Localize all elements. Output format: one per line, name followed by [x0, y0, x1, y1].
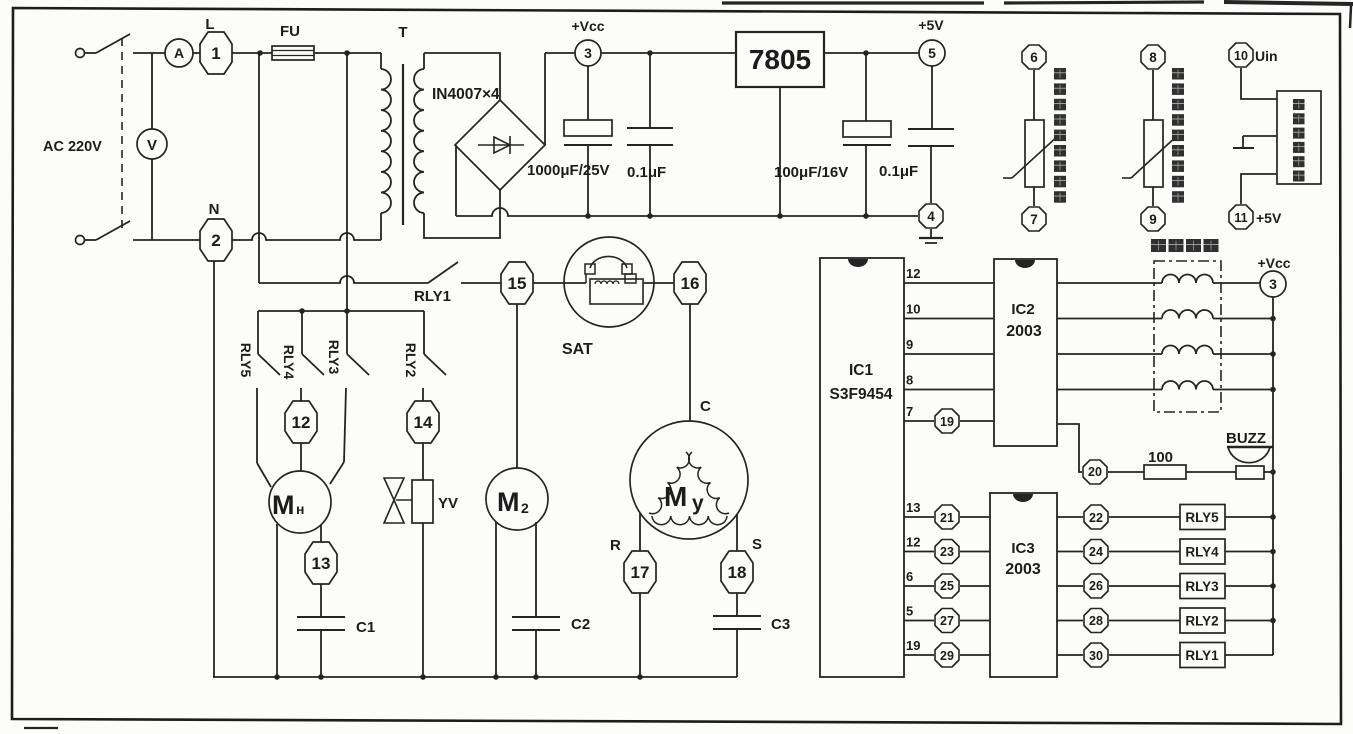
svg-text:25: 25 — [940, 579, 954, 593]
relay coil RLY1 — [1180, 643, 1225, 668]
junction — [344, 50, 350, 56]
wire — [639, 593, 641, 677]
svg-text:16: 16 — [681, 274, 700, 293]
wire — [736, 593, 738, 616]
capacitor C3 — [713, 615, 761, 617]
svg-text:C: C — [700, 398, 711, 415]
svg-text:RLY5: RLY5 — [238, 343, 254, 378]
wire RLY3 diagonal into motor — [330, 462, 344, 484]
svg-text:IN4007×4: IN4007×4 — [432, 86, 500, 103]
relay coil RLY3 — [1180, 574, 1225, 599]
wire IC1 pin 8 — [904, 389, 994, 391]
svg-text:+5V: +5V — [1256, 210, 1282, 226]
wire — [1264, 471, 1273, 473]
svg-text:13: 13 — [906, 500, 920, 515]
wire bridge left corner down — [455, 145, 457, 216]
thermistor RT2 body — [1144, 120, 1163, 187]
svg-text:M: M — [272, 490, 295, 520]
svg-text:4: 4 — [927, 209, 935, 224]
svg-text:2: 2 — [521, 500, 529, 516]
wire IC3 out row 1 — [1057, 516, 1083, 518]
wire +Vcc rail right — [1272, 297, 1274, 655]
svg-text:V: V — [147, 137, 157, 154]
junction — [1270, 351, 1276, 357]
capacitor 0.1uF a — [649, 53, 651, 128]
svg-text:21: 21 — [940, 511, 954, 525]
switch RLY4 — [301, 311, 303, 354]
svg-text:100: 100 — [1148, 449, 1173, 466]
switch S1a blade — [96, 34, 130, 53]
node 1 — [200, 32, 232, 74]
svg-text:23: 23 — [940, 545, 954, 559]
stepper coil 3 — [1162, 346, 1213, 355]
wire — [960, 654, 990, 656]
wire — [133, 239, 200, 241]
svg-text:2003: 2003 — [1006, 323, 1042, 340]
op-amp IC2 2003 box — [994, 259, 1057, 446]
junction — [299, 308, 305, 314]
svg-text:BUZZ: BUZZ — [1226, 430, 1266, 447]
svg-text:3: 3 — [584, 45, 592, 61]
wire RLY5 diagonal into motor — [257, 463, 271, 487]
relay coil RLY5 — [1180, 505, 1225, 530]
wire — [1108, 471, 1144, 473]
node 27 — [935, 609, 959, 633]
capacitor 0.1uF b — [931, 66, 933, 129]
stepper coil 2 — [1162, 310, 1213, 319]
svg-text:N: N — [209, 201, 220, 218]
wire vertical to RLY1 line — [258, 53, 260, 283]
node 23 — [935, 540, 959, 564]
wire motor left down — [276, 524, 278, 677]
node 13 — [305, 542, 337, 584]
svg-text:IC2: IC2 — [1011, 301, 1034, 318]
bridge diode symbol — [478, 144, 524, 146]
node 20 — [1083, 460, 1107, 484]
wire — [461, 282, 501, 284]
wire — [1109, 620, 1180, 622]
svg-text:YV: YV — [438, 495, 458, 512]
junction — [863, 50, 869, 56]
node 5 — [919, 40, 945, 66]
wire — [1152, 187, 1154, 206]
svg-text:RLY3: RLY3 — [1185, 579, 1219, 594]
IR gnd symbol — [1243, 135, 1277, 137]
op-amp IC1 S3F9454 box — [820, 258, 904, 677]
capacitor C1 — [297, 616, 345, 618]
svg-text:AC 220V: AC 220V — [43, 139, 102, 155]
svg-text:C2: C2 — [571, 616, 590, 633]
wire IC1 pin 10 — [904, 318, 994, 320]
wire IC1 pin 12 — [904, 551, 934, 553]
wire — [1109, 585, 1180, 587]
wire +Vcc rail — [545, 52, 736, 54]
fuse FU — [272, 46, 314, 60]
node 4 — [919, 204, 943, 228]
svg-text:RLY2: RLY2 — [403, 343, 419, 378]
svg-text:L: L — [205, 16, 214, 33]
wire bridge + output up — [544, 53, 546, 145]
wire — [232, 52, 272, 54]
svg-text:5: 5 — [928, 45, 936, 61]
node 7 — [1022, 207, 1046, 231]
wire — [960, 516, 990, 518]
svg-text:10: 10 — [1234, 49, 1248, 63]
My winding bottom — [652, 516, 727, 525]
wire IC3 out row 5 — [1057, 654, 1083, 656]
label stepper motor (chinese) — [1151, 239, 1166, 252]
svg-text:29: 29 — [940, 649, 954, 663]
node 21 — [935, 505, 959, 529]
switch S1b blade — [96, 221, 130, 240]
wire — [1213, 282, 1260, 284]
junction dots on ground rail — [585, 213, 591, 219]
svg-text:12: 12 — [292, 413, 311, 432]
svg-text:FU: FU — [280, 23, 300, 40]
wire IC2 out row 4 — [1057, 389, 1162, 391]
wire motor right down — [535, 522, 537, 617]
junction — [647, 50, 653, 56]
junction — [257, 50, 263, 56]
wire — [1186, 471, 1236, 473]
wire — [1213, 318, 1273, 320]
node 9 — [1141, 207, 1165, 231]
svg-text:IC3: IC3 — [1011, 540, 1034, 557]
ground rail with hop — [456, 208, 918, 216]
wire R lead — [639, 513, 641, 551]
wire IC1 pin 7 — [904, 420, 934, 422]
wire 7805 output — [824, 52, 919, 54]
motor M2 — [486, 468, 548, 530]
wire node2 down — [213, 261, 215, 677]
wire — [1109, 654, 1180, 656]
node 22 — [1084, 505, 1108, 529]
node 14 — [407, 401, 439, 443]
wire node15 down — [516, 304, 518, 468]
wire IC2 to node 20 — [1057, 424, 1082, 472]
svg-text:7: 7 — [1030, 212, 1038, 227]
junction — [1270, 316, 1276, 322]
scan artifact top edge marks — [722, 1, 984, 4]
wire IC1 pin 9 — [904, 353, 994, 355]
junction — [1270, 514, 1276, 520]
wire — [643, 282, 675, 284]
svg-text:5: 5 — [906, 604, 913, 619]
wire S lead — [736, 514, 738, 551]
junction — [1270, 469, 1276, 475]
svg-text:M: M — [664, 481, 687, 512]
valve YV solenoid body — [412, 480, 433, 523]
ammeter A — [165, 39, 193, 67]
wire IC1 pin 13 — [904, 516, 934, 518]
ground symbol — [930, 229, 932, 238]
IC3 notch — [1013, 494, 1033, 502]
valve YV bowtie — [384, 478, 404, 500]
node 18 — [721, 551, 753, 593]
junction — [420, 674, 426, 680]
svg-text:IC1: IC1 — [849, 362, 874, 379]
wire IC1 pin 5 — [904, 620, 934, 622]
thermistor RT2 arrow — [1131, 135, 1178, 178]
node 29 — [935, 643, 959, 667]
svg-text:Uin: Uin — [1255, 48, 1278, 64]
wire — [1241, 68, 1277, 99]
svg-text:RLY5: RLY5 — [1185, 510, 1219, 525]
node 19 — [935, 409, 959, 433]
svg-text:100μF/16V: 100μF/16V — [774, 164, 848, 181]
wire — [85, 52, 97, 54]
wire N with hops — [232, 233, 381, 240]
svg-text:RLY1: RLY1 — [414, 288, 451, 305]
svg-text:10: 10 — [906, 302, 920, 317]
wire motor left down — [495, 522, 497, 677]
node 28 — [1084, 609, 1108, 633]
junction — [1270, 387, 1276, 393]
motor My — [630, 421, 748, 539]
svg-text:9: 9 — [906, 337, 913, 352]
svg-text:RLY4: RLY4 — [1185, 545, 1219, 560]
terminal N input circle — [76, 236, 85, 245]
stepper motor dashed box — [1154, 261, 1221, 412]
capacitor C 1000uF/25V — [564, 120, 612, 136]
wire 7805 gnd — [779, 87, 781, 216]
wire — [1109, 516, 1180, 518]
label IR receiver (chinese vertical) — [1293, 99, 1305, 110]
svg-text:14: 14 — [414, 413, 433, 432]
regulator 7805 — [736, 32, 824, 87]
bottom bus wire — [213, 676, 737, 678]
transformer T secondary — [423, 53, 425, 69]
svg-text:6: 6 — [906, 569, 913, 584]
svg-text:3: 3 — [1269, 276, 1277, 292]
IC2 notch — [1015, 260, 1035, 268]
junction — [1270, 583, 1276, 589]
wire — [422, 443, 424, 480]
wire vertical to relay bus — [346, 53, 348, 311]
svg-text:RLY3: RLY3 — [326, 340, 342, 375]
bridge rectifier IN4007x4 — [455, 100, 545, 190]
wire — [1213, 389, 1273, 391]
capacitor C2 — [512, 616, 560, 618]
wire — [960, 620, 990, 622]
svg-text:2: 2 — [211, 231, 220, 250]
svg-text:19: 19 — [906, 638, 920, 653]
svg-text:0.1μF: 0.1μF — [627, 164, 666, 181]
svg-text:+Vcc: +Vcc — [571, 18, 604, 34]
op-amp IC3 2003 box — [990, 493, 1057, 677]
svg-text:M: M — [497, 487, 520, 517]
node 24 — [1084, 540, 1108, 564]
svg-text:30: 30 — [1089, 649, 1103, 663]
wire IC1 pin 6 — [904, 585, 934, 587]
transformer core — [402, 64, 404, 225]
wire — [300, 443, 302, 471]
svg-text:+Vcc: +Vcc — [1257, 255, 1290, 271]
svg-text:A: A — [174, 45, 184, 61]
svg-text:11: 11 — [1234, 211, 1247, 225]
svg-text:8: 8 — [906, 373, 913, 388]
label sensor 1 (chinese vertical) — [1054, 68, 1066, 80]
svg-text:1000μF/25V: 1000μF/25V — [527, 162, 610, 179]
svg-text:RLY4: RLY4 — [281, 345, 297, 380]
voltmeter V — [137, 129, 167, 159]
svg-text:RLY2: RLY2 — [1185, 614, 1218, 629]
wire — [960, 551, 990, 553]
wire IC2 out row 2 — [1057, 318, 1162, 320]
wire secondary top to bridge — [424, 53, 500, 100]
node 6 — [1022, 45, 1046, 69]
svg-text:9: 9 — [1149, 212, 1157, 227]
svg-text:RLY1: RLY1 — [1185, 648, 1219, 663]
wire RLY1 feed with hop — [259, 276, 428, 283]
terminal L input circle — [76, 49, 85, 58]
My winding left — [649, 452, 689, 514]
wire IC1 pin 12 — [904, 282, 994, 284]
svg-text:26: 26 — [1089, 579, 1103, 593]
thermistor RT1 body — [1025, 120, 1044, 187]
wire — [193, 52, 200, 54]
IC1 notch — [848, 259, 868, 267]
wire IC3 out row 3 — [1057, 585, 1083, 587]
node 15 — [501, 262, 533, 304]
capacitor 1000uF lead — [587, 66, 589, 120]
stepper coil 1 — [1162, 275, 1213, 284]
switch gang dashed link — [121, 38, 123, 232]
svg-text:1: 1 — [211, 44, 220, 63]
svg-text:20: 20 — [1088, 465, 1102, 479]
thermistor RT1 arrow — [1012, 135, 1059, 178]
node 12 — [285, 401, 317, 443]
node 2 — [200, 219, 232, 261]
svg-text:8: 8 — [1149, 50, 1157, 65]
svg-text:12: 12 — [906, 266, 920, 281]
wire — [1225, 551, 1273, 553]
switch RLY3 — [346, 311, 348, 354]
wire — [1109, 551, 1180, 553]
node 3 right — [1260, 271, 1286, 297]
junction — [1270, 618, 1276, 624]
wire motor bottom to node 13 — [320, 525, 322, 542]
wire secondary bottom to bridge — [424, 190, 500, 238]
svg-text:15: 15 — [508, 274, 527, 293]
svg-text:C1: C1 — [356, 619, 375, 636]
wire node16 down — [689, 304, 691, 421]
switch RLY2 — [423, 311, 425, 354]
svg-text:7805: 7805 — [749, 44, 811, 75]
motor M1 — [269, 471, 331, 533]
wire — [1033, 70, 1035, 120]
wire — [422, 523, 424, 677]
switch RLY1 blade — [428, 262, 458, 283]
svg-text:6: 6 — [1030, 50, 1038, 65]
node 16 — [674, 262, 706, 304]
svg-text:12: 12 — [906, 535, 920, 550]
junction — [274, 674, 280, 680]
wire — [320, 584, 322, 617]
svg-text:0.1μF: 0.1μF — [879, 163, 918, 180]
junction — [637, 674, 643, 680]
wire — [1225, 620, 1273, 622]
svg-text:19: 19 — [940, 415, 954, 429]
svg-text:13: 13 — [312, 554, 331, 573]
svg-text:R: R — [610, 537, 621, 554]
relay coil RLY4 — [1180, 539, 1225, 564]
wire IC2 out row 1 — [1057, 282, 1162, 284]
overload protector SAT — [564, 237, 654, 327]
svg-text:SAT: SAT — [562, 341, 593, 358]
svg-text:+5V: +5V — [918, 17, 944, 33]
switch RLY5 — [257, 311, 259, 354]
transformer T primary — [380, 53, 382, 69]
node 26 — [1084, 574, 1108, 598]
svg-text:17: 17 — [631, 563, 650, 582]
IR receiver box — [1277, 91, 1321, 184]
wire — [960, 420, 994, 422]
wire — [1033, 187, 1035, 206]
voltmeter branch wire — [151, 53, 153, 240]
junction — [493, 674, 499, 680]
wire — [1225, 654, 1273, 656]
resistor 100 — [1144, 465, 1186, 479]
My winding right — [689, 452, 729, 514]
svg-text:н: н — [296, 501, 304, 517]
node 3 — [575, 40, 601, 66]
svg-text:C3: C3 — [771, 616, 790, 633]
wire IC3 out row 4 — [1057, 620, 1083, 622]
svg-text:S: S — [752, 536, 762, 553]
svg-text:24: 24 — [1089, 545, 1103, 559]
stepper coil 4 — [1162, 381, 1213, 390]
svg-text:y: y — [692, 492, 704, 515]
wire — [533, 282, 586, 284]
svg-text:28: 28 — [1089, 614, 1103, 628]
wire — [960, 585, 990, 587]
junction — [1270, 549, 1276, 555]
svg-text:2003: 2003 — [1005, 561, 1041, 578]
node 10 — [1229, 43, 1253, 67]
svg-text:22: 22 — [1089, 511, 1103, 525]
node 8 — [1141, 45, 1165, 69]
node 25 — [935, 574, 959, 598]
wire IC1 pin 19 — [904, 654, 934, 656]
node 11 — [1229, 205, 1253, 229]
wire — [133, 52, 165, 54]
wire — [1225, 516, 1273, 518]
svg-text:7: 7 — [906, 404, 913, 419]
svg-text:T: T — [398, 24, 407, 41]
wire — [1241, 174, 1277, 204]
node 30 — [1084, 643, 1108, 667]
wire — [1152, 70, 1154, 120]
svg-text:S3F9454: S3F9454 — [830, 386, 893, 403]
label sensor 2 (chinese vertical) — [1172, 68, 1184, 80]
wire — [1213, 353, 1273, 355]
capacitor C 100uF/16V — [865, 53, 867, 121]
svg-text:27: 27 — [940, 614, 954, 628]
relay coil RLY2 — [1180, 608, 1225, 633]
wire IC2 out row 3 — [1057, 353, 1162, 355]
wire — [1225, 585, 1273, 587]
wire — [314, 52, 381, 54]
relay bus wire — [258, 310, 424, 312]
wire — [85, 239, 97, 241]
svg-text:18: 18 — [728, 563, 747, 582]
node 17 — [624, 551, 656, 593]
buzzer BUZZ — [1227, 446, 1273, 449]
wire IC3 out row 2 — [1057, 551, 1083, 553]
